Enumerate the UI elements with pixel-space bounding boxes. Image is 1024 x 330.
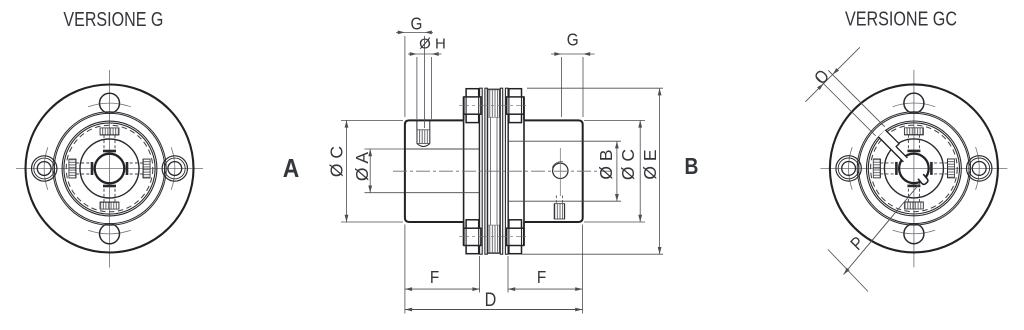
section: disc pack lamina 4 <box>505 88 508 254</box>
section: horizontal centerline <box>393 170 612 172</box>
dim F right: dimension line <box>508 288 582 290</box>
section: right hub body <box>524 120 583 222</box>
svg-text:Ø C: Ø C <box>618 149 638 180</box>
version GC front view: hub outer circle pair <box>867 121 962 216</box>
version G front view: left ear boss rings <box>32 156 57 181</box>
dim G left: dimension line <box>396 31 433 33</box>
svg-text:VERSIONE G: VERSIONE G <box>63 9 163 31</box>
version G front view: right ear boss rings <box>162 156 187 181</box>
dim F/D: extension lines <box>404 225 406 314</box>
section: disc pack lamina 1 <box>480 88 483 254</box>
dim C right: extension lines <box>584 119 645 121</box>
version GC front view: top bolt hole <box>904 93 924 113</box>
version GC front view: horizontal centerline <box>820 167 1007 169</box>
GC: O dimension line <box>805 47 860 102</box>
svg-text:Ø H: Ø H <box>419 35 446 52</box>
dim D: dimension line <box>405 309 583 311</box>
svg-text:F: F <box>430 267 439 287</box>
dim C left: dimension line <box>346 120 348 222</box>
version GC front view: hub inner circle <box>884 139 943 198</box>
version GC front view: outer flange circle <box>830 84 998 252</box>
version GC front view: set screw top <box>904 128 923 152</box>
dim C left: extension lines <box>341 119 403 121</box>
section: left flange face line <box>463 120 465 222</box>
dim H: extension lines <box>416 57 418 119</box>
version G front view: set screw left <box>69 159 93 178</box>
dim E: extension lines <box>527 87 663 89</box>
section: left flange <box>464 98 480 245</box>
svg-text:Ø A: Ø A <box>352 152 372 182</box>
section: center spacer <box>488 89 500 253</box>
version G front view: dashed thread circle <box>66 125 153 212</box>
svg-text:VERSIONE GC: VERSIONE GC <box>845 8 957 30</box>
section: disc pack lamina 3 <box>500 88 502 254</box>
GC: P dimension line <box>844 182 922 275</box>
version G front view: bolt circle arcs <box>88 230 131 234</box>
section: left hub bore lines <box>406 148 480 150</box>
version G front view: hub inner circle <box>80 139 139 198</box>
svg-text:G: G <box>411 13 423 33</box>
section: top left bolt head <box>466 89 479 123</box>
dim E: dimension line <box>659 88 661 254</box>
svg-text:F: F <box>537 267 546 287</box>
section: clamp screw centerline <box>559 148 561 196</box>
dim F left: dimension line <box>405 288 480 290</box>
svg-text:Ø C: Ø C <box>327 146 347 177</box>
section: top bolt centerline <box>459 105 529 107</box>
version GC front view: left ear boss rings <box>836 156 861 181</box>
version GC front view: right ear boss rings <box>967 156 992 181</box>
section: bottom left bolt head <box>466 220 479 254</box>
dim G left: extension lines <box>404 36 406 117</box>
svg-text:D: D <box>485 289 497 311</box>
version GC front view: dashed thread circle <box>871 125 958 212</box>
version G front view: hub outer circle pair <box>62 121 157 216</box>
svg-text:O: O <box>810 66 833 89</box>
version GC front view: boss circle outer pair <box>857 112 970 225</box>
version G front view: bottom bolt hole <box>100 224 120 244</box>
section: bottom bolt centerline <box>459 236 529 238</box>
section: top right bolt head <box>509 89 522 123</box>
version G front view: boss circle outer pair <box>53 112 166 225</box>
version GC front view: bottom bolt hole <box>904 224 924 244</box>
section: right flange face line <box>523 120 525 222</box>
svg-text:A: A <box>283 155 300 184</box>
dim C right: dimension line <box>639 120 641 222</box>
version G front view: top bolt hole <box>100 93 120 113</box>
GC: P extension line <box>828 250 868 292</box>
dim G right: dimension line <box>551 53 595 55</box>
svg-text:G: G <box>567 29 579 49</box>
GC: O dimension extension lines <box>828 70 885 127</box>
section: right hub bore lines / B extension <box>509 140 621 142</box>
dim A: extension lines <box>365 148 405 150</box>
dim G right: extension lines <box>561 57 563 117</box>
dim H: dimension line <box>408 53 442 55</box>
version GC front view: bore circle <box>899 154 929 184</box>
dim B: dimension line <box>616 141 618 201</box>
version G front view: set screw bottom <box>100 185 119 209</box>
section: right set screw hidden thread lines <box>555 196 557 204</box>
version GC front view: set screw bottom <box>904 185 923 209</box>
section: left hub body <box>405 120 464 222</box>
version G front view: outer flange circle <box>26 85 194 253</box>
section: left hub set screw hole <box>416 120 418 143</box>
version GC front view: bolt circle arcs <box>893 230 936 234</box>
section: bottom right bolt head <box>509 220 522 254</box>
section: right flange <box>508 98 524 245</box>
GC: keyway <box>918 174 929 185</box>
GC: clamp slit <box>878 130 907 162</box>
svg-text:Ø E: Ø E <box>640 149 660 179</box>
version G front view: horizontal centerline <box>16 168 203 170</box>
version GC front view: set screw right <box>930 159 954 178</box>
section: clamp screw hole circle <box>553 163 568 178</box>
section: right hub bottom set screw <box>554 204 564 219</box>
version G front view: set screw top <box>100 128 119 152</box>
svg-text:Ø B: Ø B <box>596 149 616 179</box>
svg-text:B: B <box>685 153 699 179</box>
version GC front view: vertical centerline <box>913 70 915 268</box>
version G front view: vertical centerline <box>109 70 111 268</box>
dim A: dimension line <box>369 149 371 193</box>
version G front view: bore circle <box>95 154 125 184</box>
section: disc pack lamina 2 <box>485 88 487 254</box>
version GC front view: set screw left <box>873 159 897 178</box>
version G front view: set screw right <box>126 159 150 178</box>
